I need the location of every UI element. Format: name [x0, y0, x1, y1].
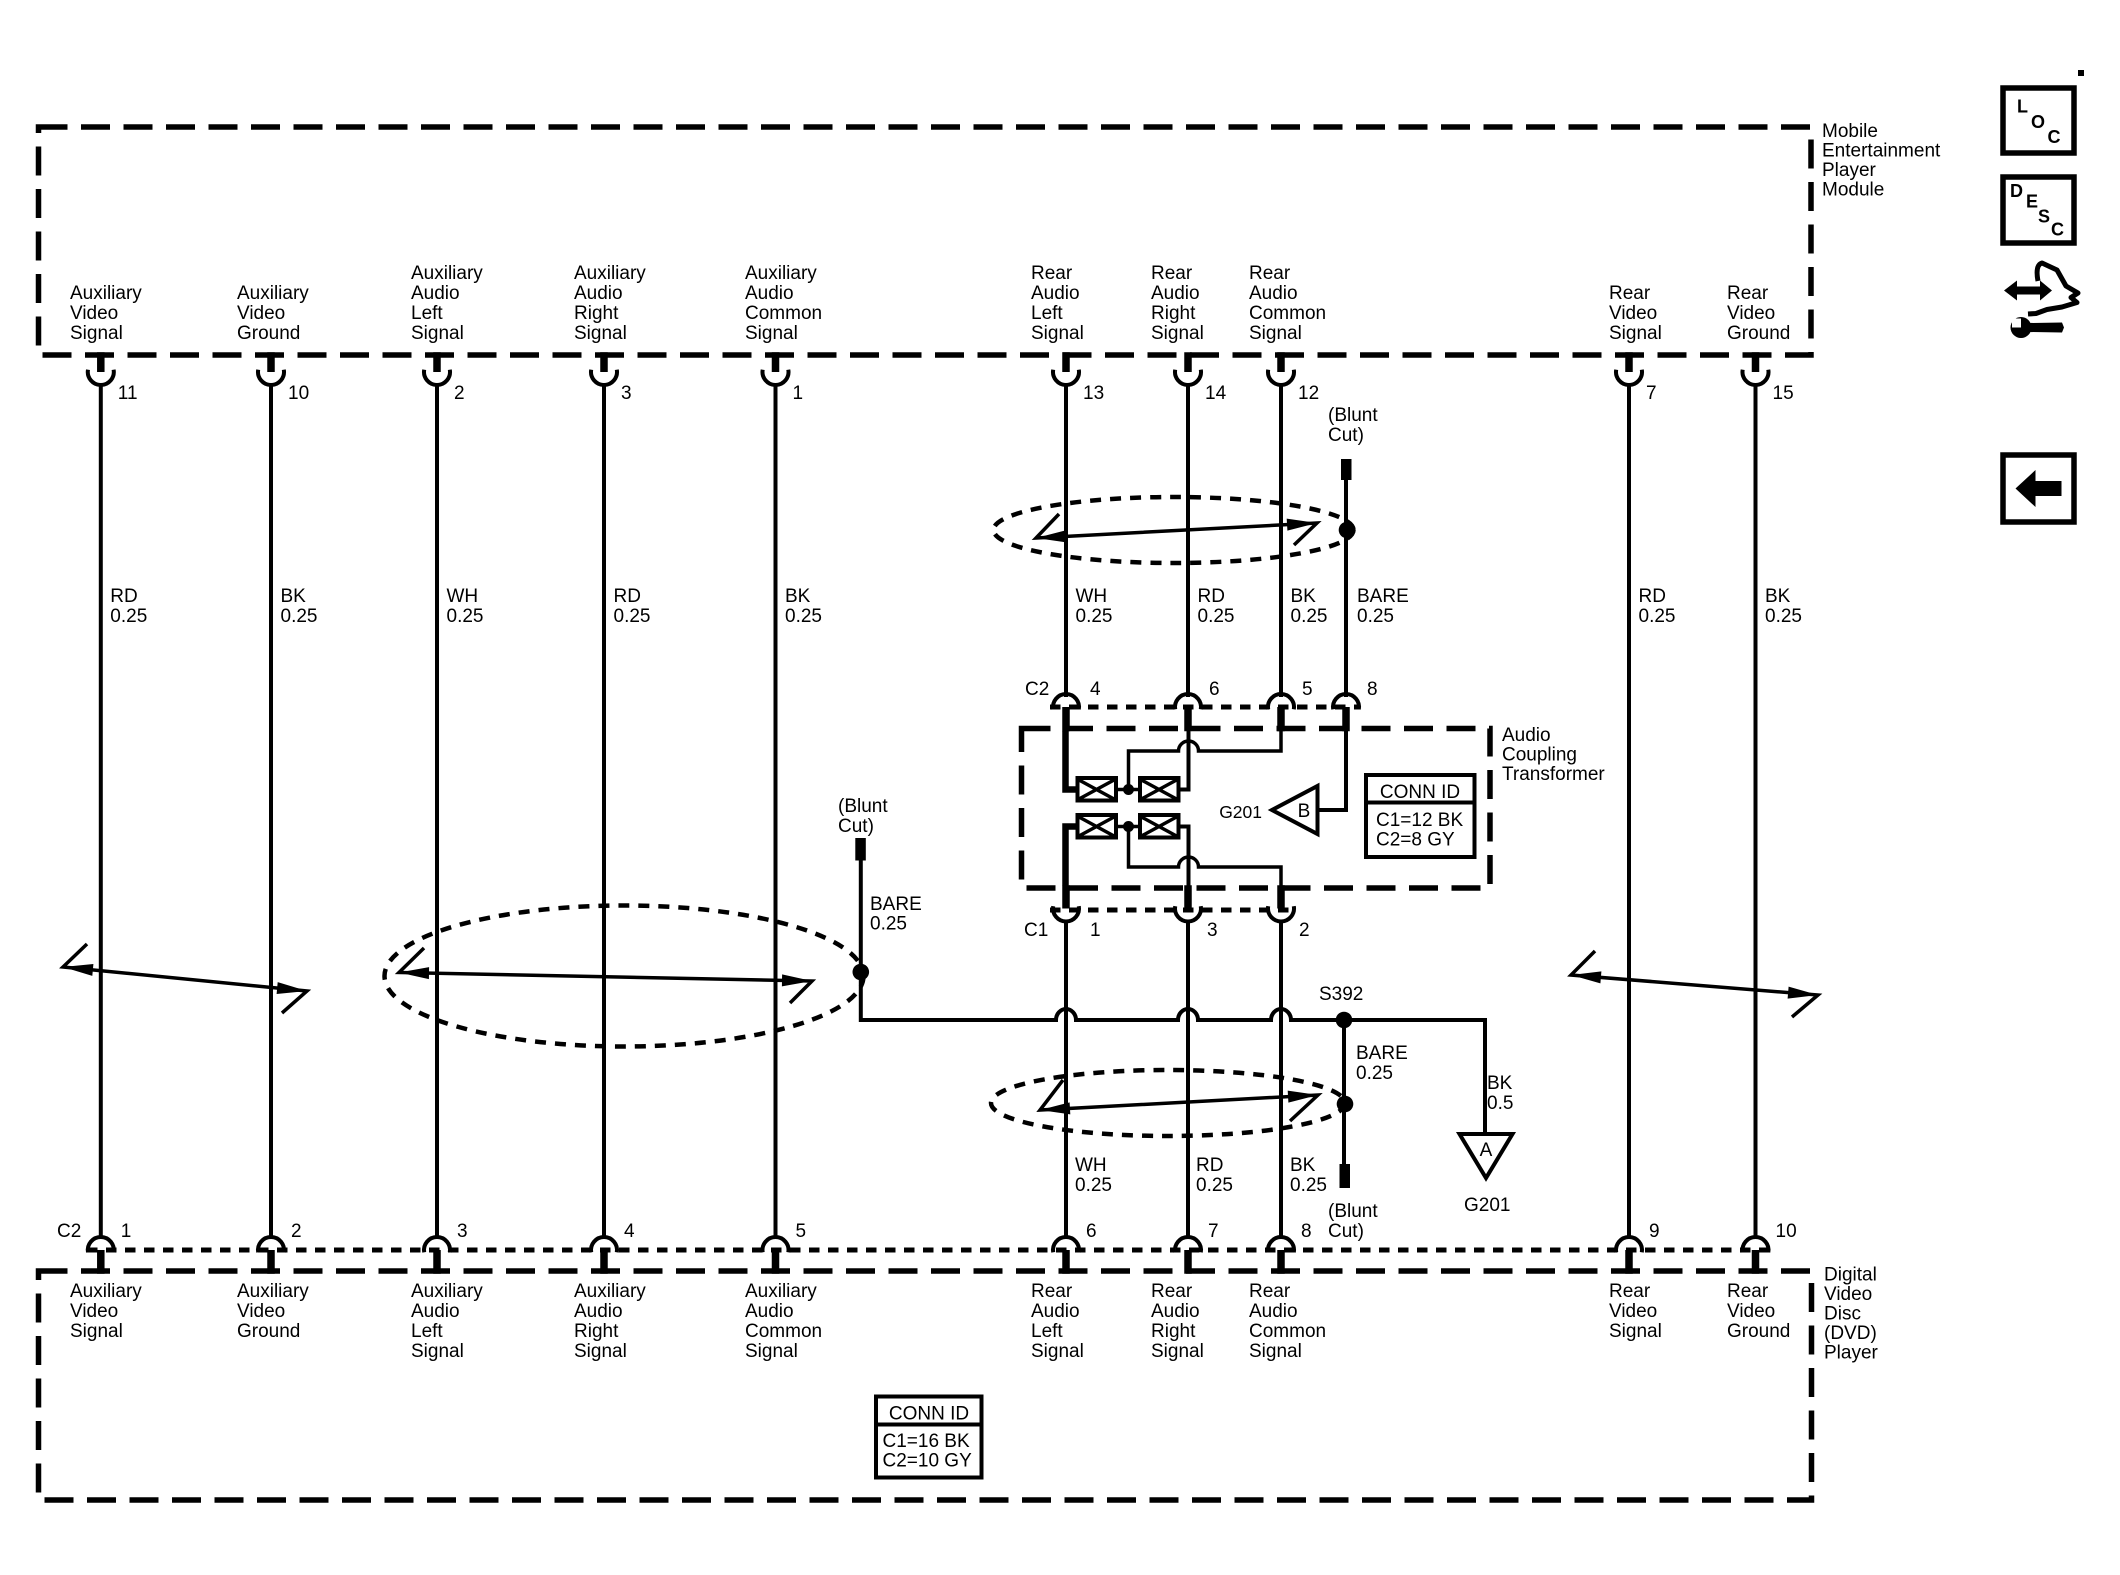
svg-text:BK: BK	[1291, 586, 1317, 607]
svg-text:C2=10 GY: C2=10 GY	[883, 1451, 973, 1472]
wire C2-8 (BARE drain) to ground triangle B	[1318, 731, 1347, 810]
svg-text:Signal: Signal	[411, 1341, 464, 1362]
svg-text:Left: Left	[1031, 1321, 1063, 1342]
shield ellipse (rear audio, lower)	[991, 1070, 1345, 1136]
wire BK 0.25 (pin 15 to DVD pin 10)	[1754, 385, 1758, 1238]
shield drain arrow (left)	[399, 948, 812, 1003]
svg-text:D: D	[2010, 181, 2023, 201]
svg-text:0.25: 0.25	[870, 914, 907, 935]
svg-text:Signal: Signal	[70, 1321, 123, 1342]
connector pin 7 Mobile Entertainment Player Module	[1625, 352, 1633, 372]
svg-text:Audio: Audio	[574, 283, 623, 304]
svg-text:Rear: Rear	[1609, 283, 1651, 304]
svg-text:Signal: Signal	[1249, 1341, 1302, 1362]
transformer T2 winding link + center tap junction	[1116, 825, 1140, 829]
wire winding 4 right terminal to C1-3	[1179, 827, 1189, 886]
wire RD 0.25 (pin 7 to DVD pin 9)	[1627, 385, 1631, 1238]
transformer T2 feeder wire winding 3 to C1-1	[1066, 827, 1078, 886]
svg-text:Auxiliary: Auxiliary	[411, 1281, 483, 1302]
svg-text:9: 9	[1649, 1221, 1660, 1242]
wire (C1 pin 1 to DVD)	[1064, 922, 1068, 1239]
svg-text:2: 2	[291, 1221, 302, 1242]
svg-text:Rear: Rear	[1727, 1281, 1769, 1302]
back arrow icon box	[2003, 455, 2074, 522]
svg-text:3: 3	[1207, 920, 1218, 941]
svg-text:Video: Video	[70, 303, 118, 324]
svg-text:5: 5	[1302, 679, 1313, 700]
connector pin 3 Mobile Entertainment Player Module	[600, 352, 608, 372]
svg-text:0.25: 0.25	[1290, 1175, 1327, 1196]
svg-text:Auxiliary: Auxiliary	[745, 263, 817, 284]
wire RD 0.25 (pin 3 to DVD pin 4)	[602, 385, 606, 1238]
wire (C1 pin 2 to DVD)	[1279, 922, 1283, 1239]
svg-text:S: S	[2038, 207, 2050, 227]
CONN ID table (transformer)	[1366, 775, 1475, 857]
svg-text:Signal: Signal	[411, 323, 464, 344]
svg-text:Audio: Audio	[1151, 283, 1200, 304]
svg-text:Common: Common	[745, 1321, 822, 1342]
svg-text:E: E	[2026, 192, 2038, 212]
svg-text:Signal: Signal	[1031, 323, 1084, 344]
wire RD 0.25 (pin 14 to C2)	[1186, 385, 1190, 697]
svg-text:0.25: 0.25	[447, 606, 484, 627]
svg-text:Signal: Signal	[1249, 323, 1302, 344]
connector C2 pin 8 Audio Coupling Transformer	[1333, 694, 1359, 709]
svg-text:Right: Right	[1151, 1321, 1196, 1342]
svg-text:8: 8	[1367, 679, 1378, 700]
svg-text:B: B	[1298, 801, 1311, 822]
svg-text:C1=12 BK: C1=12 BK	[1376, 810, 1463, 831]
Mobile Entertainment Player Module box	[39, 127, 1812, 355]
blunt cut stub (middle BARE wire)	[855, 838, 866, 861]
svg-text:Signal: Signal	[574, 323, 627, 344]
svg-text:Signal: Signal	[1151, 1341, 1204, 1362]
svg-text:Rear: Rear	[1151, 1281, 1193, 1302]
connector pin 10 DVD Player	[1743, 1237, 1769, 1252]
transformer T2 secondary winding 4	[1140, 815, 1179, 838]
svg-text:Coupling: Coupling	[1502, 745, 1577, 766]
svg-text:WH: WH	[1076, 586, 1108, 607]
svg-text:Rear: Rear	[1609, 1281, 1651, 1302]
svg-text:6: 6	[1209, 679, 1220, 700]
svg-text:0.25: 0.25	[1291, 606, 1328, 627]
svg-text:Audio: Audio	[1249, 1301, 1298, 1322]
wire BK 0.25 (pin 1 to DVD pin 5)	[774, 385, 778, 1238]
connector pin 14 Mobile Entertainment Player Module	[1184, 352, 1192, 372]
svg-text:Audio: Audio	[1031, 1301, 1080, 1322]
connector pin 13 Mobile Entertainment Player Module	[1062, 352, 1070, 372]
svg-text:BK: BK	[1487, 1073, 1513, 1094]
svg-text:Transformer: Transformer	[1502, 764, 1605, 785]
wire BARE 0.25 (S392 down to blunt cut)	[1342, 1020, 1346, 1164]
svg-text:Audio: Audio	[574, 1301, 623, 1322]
svg-text:Signal: Signal	[70, 323, 123, 344]
svg-text:(Blunt: (Blunt	[1328, 1201, 1378, 1222]
svg-text:8: 8	[1301, 1221, 1312, 1242]
wire BARE 0.25 (middle blunt cut down to bus)	[859, 858, 863, 1018]
shield ellipse (auxiliary audio)	[385, 906, 864, 1047]
svg-text:Left: Left	[1031, 303, 1063, 324]
svg-text:Common: Common	[1249, 1321, 1326, 1342]
connector C1 pin 3 Audio Coupling Transformer	[1184, 885, 1192, 908]
svg-text:Ground: Ground	[237, 323, 300, 344]
svg-text:BK: BK	[1290, 1155, 1316, 1176]
svg-text:Signal: Signal	[1609, 323, 1662, 344]
svg-text:Player: Player	[1822, 160, 1877, 181]
svg-text:RD: RD	[614, 586, 641, 607]
svg-text:Player: Player	[1824, 1343, 1879, 1364]
svg-text:Rear: Rear	[1151, 263, 1193, 284]
svg-text:BARE: BARE	[870, 894, 922, 915]
svg-text:C2=8 GY: C2=8 GY	[1376, 830, 1455, 851]
shield drain junction (lower right)	[1337, 1096, 1354, 1113]
svg-text:C: C	[2051, 220, 2064, 240]
svg-text:Disc: Disc	[1824, 1304, 1861, 1325]
connector pin 4 DVD Player	[591, 1237, 617, 1252]
wire break arrow (right, rear video wires)	[1571, 951, 1818, 1017]
svg-text:C2: C2	[1025, 679, 1049, 700]
svg-text:Auxiliary: Auxiliary	[237, 1281, 309, 1302]
connector pin 8 DVD Player	[1268, 1237, 1294, 1252]
svg-text:Video: Video	[1609, 1301, 1657, 1322]
shield drain arrow (lower right)	[1040, 1080, 1318, 1121]
svg-text:BK: BK	[1765, 586, 1791, 607]
svg-text:Mobile: Mobile	[1822, 121, 1878, 142]
svg-text:Entertainment: Entertainment	[1822, 141, 1941, 162]
svg-text:Left: Left	[411, 303, 443, 324]
svg-text:A: A	[1480, 1140, 1493, 1161]
svg-text:Audio: Audio	[411, 283, 460, 304]
svg-text:0.25: 0.25	[1765, 606, 1802, 627]
svg-text:12: 12	[1298, 383, 1319, 404]
svg-text:0.25: 0.25	[281, 606, 318, 627]
svg-text:Ground: Ground	[237, 1321, 300, 1342]
svg-text:Rear: Rear	[1031, 263, 1073, 284]
svg-text:BARE: BARE	[1356, 1043, 1408, 1064]
svg-text:G201: G201	[1219, 802, 1262, 822]
svg-text:C1=16 BK: C1=16 BK	[883, 1431, 970, 1452]
svg-text:0.25: 0.25	[1357, 606, 1394, 627]
svg-text:G201: G201	[1464, 1195, 1510, 1216]
shield drain junction (top right)	[1339, 522, 1356, 539]
svg-text:WH: WH	[447, 586, 479, 607]
svg-text:11: 11	[118, 383, 138, 404]
svg-text:Signal: Signal	[1609, 1321, 1662, 1342]
service/vehicle icon: wrench	[2011, 317, 2032, 338]
ground symbol A (G201)	[1460, 1134, 1513, 1178]
center tap wire to C2-5 (hops over C2-6 wire)	[1129, 731, 1282, 785]
wire WH 0.25 (pin 13 to C2)	[1064, 385, 1068, 697]
svg-text:Video: Video	[1824, 1284, 1872, 1305]
connector C2 pin 6 Audio Coupling Transformer	[1175, 694, 1201, 709]
C1 connector face dotted line (Audio Coupling Transformer)	[1050, 908, 1296, 913]
svg-text:Rear: Rear	[1249, 263, 1291, 284]
svg-text:(Blunt: (Blunt	[1328, 405, 1378, 426]
connector pin 9 DVD Player	[1616, 1237, 1642, 1252]
wire RD 0.25 (pin 11 to DVD pin 1)	[99, 385, 103, 1238]
svg-text:Signal: Signal	[574, 1341, 627, 1362]
svg-text:3: 3	[457, 1221, 468, 1242]
svg-text:Digital: Digital	[1824, 1265, 1877, 1286]
svg-text:0.25: 0.25	[1076, 606, 1113, 627]
svg-text:1: 1	[793, 383, 804, 404]
connector pin 3 DVD Player	[424, 1237, 450, 1252]
svg-text:0.25: 0.25	[1356, 1063, 1393, 1084]
svg-text:Audio: Audio	[411, 1301, 460, 1322]
connector pin 2 Mobile Entertainment Player Module	[433, 352, 441, 372]
svg-text:0.25: 0.25	[785, 606, 822, 627]
svg-text:RD: RD	[1198, 586, 1225, 607]
svg-text:Right: Right	[1151, 303, 1196, 324]
blunt cut stub (top BARE wire)	[1341, 459, 1352, 480]
connector pin 7 DVD Player	[1175, 1237, 1201, 1252]
svg-text:BARE: BARE	[1357, 586, 1409, 607]
DVD connector face dotted line	[87, 1248, 1770, 1253]
svg-text:Rear: Rear	[1727, 283, 1769, 304]
svg-text:Audio: Audio	[1031, 283, 1080, 304]
svg-text:Video: Video	[1609, 303, 1657, 324]
drain bus wire to S392 and ground (hops over rear audio wires)	[861, 1009, 1485, 1134]
svg-text:7: 7	[1208, 1221, 1219, 1242]
svg-text:Auxiliary: Auxiliary	[574, 263, 646, 284]
page mark dot	[2078, 70, 2084, 76]
blunt cut stub (lower BARE wire)	[1340, 1164, 1351, 1188]
svg-text:O: O	[2031, 112, 2045, 132]
svg-text:Cut): Cut)	[838, 816, 874, 837]
connector C2 pin 5 Audio Coupling Transformer	[1268, 694, 1294, 709]
svg-text:Module: Module	[1822, 180, 1884, 201]
connector pin 1 DVD Player	[88, 1237, 114, 1252]
wire BK 0.25 (pin 10 to DVD pin 2)	[269, 385, 273, 1238]
svg-text:Rear: Rear	[1031, 1281, 1073, 1302]
svg-text:(DVD): (DVD)	[1824, 1323, 1877, 1344]
splice S392	[1336, 1012, 1353, 1029]
connector pin 11 Mobile Entertainment Player Module	[97, 352, 105, 372]
svg-text:WH: WH	[1075, 1155, 1107, 1176]
connector pin 2 DVD Player	[258, 1237, 284, 1252]
svg-text:Common: Common	[1249, 303, 1326, 324]
svg-text:Video: Video	[1727, 303, 1775, 324]
svg-text:4: 4	[1090, 679, 1101, 700]
svg-text:Signal: Signal	[1151, 323, 1204, 344]
wire WH 0.25 (pin 2 to DVD pin 3)	[435, 385, 439, 1238]
wire C2-6 to winding 2 right terminal	[1179, 731, 1189, 790]
svg-text:13: 13	[1083, 383, 1104, 404]
svg-text:Left: Left	[411, 1321, 443, 1342]
connector C2 pin 4 Audio Coupling Transformer	[1053, 694, 1079, 709]
svg-text:C: C	[2048, 127, 2061, 147]
Audio Coupling Transformer box	[1022, 729, 1491, 889]
Digital Video Disc (DVD) Player box	[39, 1271, 1812, 1500]
LOC icon box	[2003, 88, 2074, 153]
svg-text:Audio: Audio	[745, 283, 794, 304]
svg-text:Ground: Ground	[1727, 1321, 1790, 1342]
svg-text:10: 10	[1776, 1221, 1797, 1242]
svg-text:RD: RD	[1196, 1155, 1223, 1176]
svg-text:Signal: Signal	[745, 1341, 798, 1362]
connector pin 5 DVD Player	[763, 1237, 789, 1252]
svg-text:Cut): Cut)	[1328, 1221, 1364, 1242]
connector C1 pin 1 Audio Coupling Transformer	[1062, 885, 1070, 908]
connector C1 pin 2 Audio Coupling Transformer	[1277, 885, 1285, 908]
svg-text:6: 6	[1086, 1221, 1097, 1242]
svg-text:Auxiliary: Auxiliary	[70, 283, 142, 304]
svg-text:Video: Video	[237, 303, 285, 324]
svg-text:Signal: Signal	[745, 323, 798, 344]
connector pin 6 DVD Player	[1053, 1237, 1079, 1252]
svg-text:2: 2	[454, 383, 465, 404]
connector pin 1 Mobile Entertainment Player Module	[772, 352, 780, 372]
svg-text:15: 15	[1773, 383, 1794, 404]
svg-text:Audio: Audio	[1151, 1301, 1200, 1322]
svg-text:Auxiliary: Auxiliary	[237, 283, 309, 304]
ground symbol B (G201)	[1272, 786, 1318, 834]
svg-text:BK: BK	[785, 586, 811, 607]
transformer T2 secondary winding 3	[1078, 815, 1117, 838]
shield ellipse (rear audio, upper)	[994, 497, 1354, 563]
connector pin 12 Mobile Entertainment Player Module	[1277, 352, 1285, 372]
svg-text:Cut): Cut)	[1328, 425, 1364, 446]
DESC icon box	[2003, 177, 2074, 243]
C2 connector face dotted line (Audio Coupling Transformer)	[1050, 705, 1360, 710]
svg-text:1: 1	[121, 1221, 132, 1242]
svg-text:Rear: Rear	[1249, 1281, 1291, 1302]
svg-text:S392: S392	[1319, 984, 1363, 1005]
transformer T1 winding link + center tap junction	[1116, 788, 1140, 792]
svg-text:1: 1	[1090, 920, 1101, 941]
service/vehicle icon: panel outline	[2028, 263, 2078, 314]
svg-text:L: L	[2017, 97, 2028, 117]
transformer T1 primary winding 2	[1140, 778, 1179, 801]
svg-text:4: 4	[624, 1221, 635, 1242]
svg-text:10: 10	[288, 383, 309, 404]
shield drain arrow (upper right)	[1036, 514, 1317, 545]
transformer T1 feeder wire C2-4 to primary winding	[1066, 731, 1078, 790]
svg-text:Auxiliary: Auxiliary	[745, 1281, 817, 1302]
svg-text:(Blunt: (Blunt	[838, 796, 888, 817]
svg-text:Auxiliary: Auxiliary	[574, 1281, 646, 1302]
svg-text:Auxiliary: Auxiliary	[70, 1281, 142, 1302]
svg-text:0.25: 0.25	[1639, 606, 1676, 627]
svg-text:Common: Common	[745, 303, 822, 324]
wire BK 0.25 (pin 12 to C2)	[1279, 385, 1283, 697]
svg-text:Ground: Ground	[1727, 323, 1790, 344]
connector pin 15 Mobile Entertainment Player Module	[1752, 352, 1760, 372]
transformer T1 primary winding 1	[1078, 778, 1117, 801]
svg-text:Right: Right	[574, 303, 619, 324]
svg-text:0.25: 0.25	[1196, 1175, 1233, 1196]
wire (C1 pin 3 to DVD)	[1186, 922, 1190, 1239]
wire BARE 0.25 (blunt cut to C2-8)	[1344, 480, 1348, 697]
svg-text:7: 7	[1646, 383, 1657, 404]
svg-text:BK: BK	[281, 586, 307, 607]
svg-text:RD: RD	[110, 586, 137, 607]
svg-text:CONN ID: CONN ID	[1380, 782, 1460, 803]
svg-text:Audio: Audio	[1502, 725, 1551, 746]
svg-text:C2: C2	[57, 1221, 81, 1242]
svg-text:Video: Video	[237, 1301, 285, 1322]
svg-text:5: 5	[796, 1221, 807, 1242]
svg-text:0.25: 0.25	[1075, 1175, 1112, 1196]
CONN ID table (DVD player)	[876, 1397, 982, 1478]
svg-text:CONN ID: CONN ID	[889, 1404, 969, 1425]
connector pin 10 Mobile Entertainment Player Module	[267, 352, 275, 372]
center tap wire to C1-2 (hops over C1-3 wire)	[1129, 831, 1282, 886]
svg-text:Auxiliary: Auxiliary	[411, 263, 483, 284]
service/vehicle icon: double arrow	[2004, 281, 2052, 301]
svg-text:0.25: 0.25	[110, 606, 147, 627]
svg-text:2: 2	[1299, 920, 1310, 941]
svg-text:Signal: Signal	[1031, 1341, 1084, 1362]
svg-text:C1: C1	[1024, 920, 1048, 941]
svg-text:3: 3	[621, 383, 632, 404]
shield drain junction (left)	[853, 964, 870, 981]
svg-text:0.25: 0.25	[1198, 606, 1235, 627]
svg-text:Video: Video	[70, 1301, 118, 1322]
svg-text:0.5: 0.5	[1487, 1093, 1513, 1114]
svg-text:14: 14	[1205, 383, 1227, 404]
svg-text:Audio: Audio	[1249, 283, 1298, 304]
wire break arrow (left, aux video wires)	[63, 944, 307, 1013]
svg-text:0.25: 0.25	[614, 606, 651, 627]
svg-text:Audio: Audio	[745, 1301, 794, 1322]
svg-text:Right: Right	[574, 1321, 619, 1342]
svg-text:RD: RD	[1639, 586, 1666, 607]
svg-text:Video: Video	[1727, 1301, 1775, 1322]
